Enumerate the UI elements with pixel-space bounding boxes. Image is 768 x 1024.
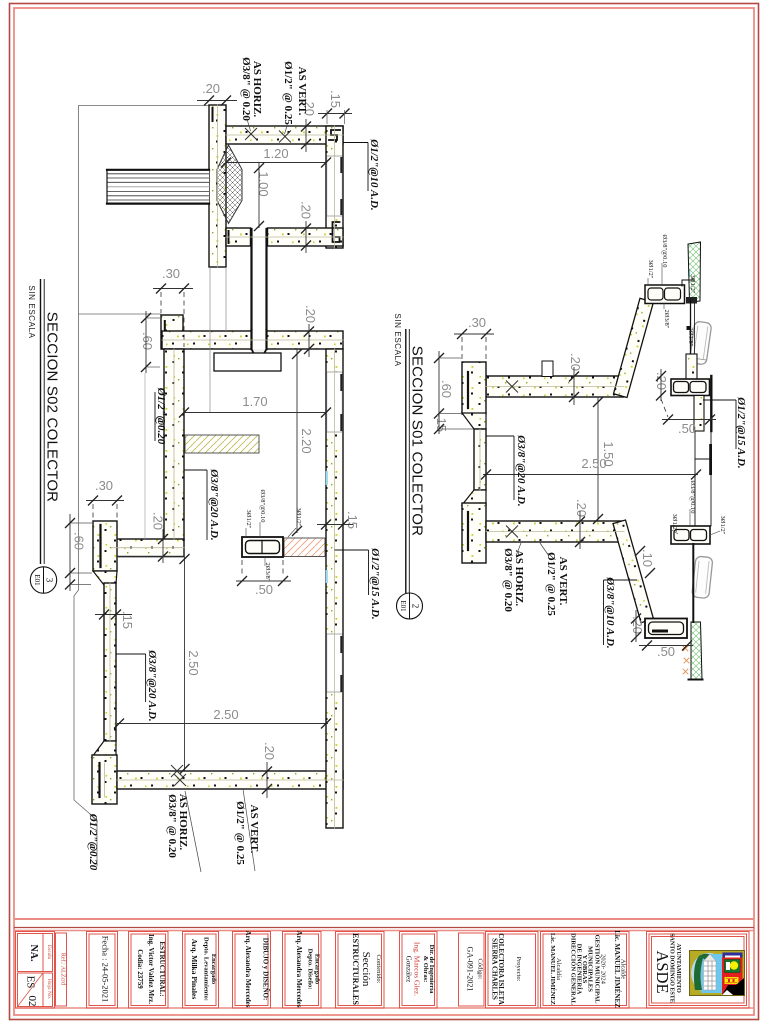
drop shaft [253,229,266,349]
orange hatch block [284,538,325,557]
svg-text:GA-091-2021: GA-091-2021 [466,947,475,992]
svg-text:& Obras:: & Obras: [422,956,429,983]
cyan construction marks [327,269,689,583]
gray center lines [105,105,344,828]
svg-text:.15: .15 [328,90,343,108]
svg-text:Ø1/2" @ 0.25: Ø1/2" @ 0.25 [545,552,557,616]
svg-text:2Ø3/8": 2Ø3/8" [663,310,670,329]
svg-text:.20: .20 [303,305,318,323]
svg-text:.60: .60 [439,380,454,398]
green hatch band bottom [691,622,702,679]
S01 left wall bottom block [462,503,486,563]
wall bits right [687,326,691,330]
S01 title [393,313,426,619]
svg-text:.15: .15 [120,611,135,629]
upper small chamber [645,285,685,304]
svg-text:.50: .50 [678,421,696,436]
dim .50 outfall [639,645,693,647]
svg-text:ESTRUCTURALES: ESTRUCTURALES [351,933,360,1005]
svg-text:Escala: Escala [46,945,52,960]
stub on slab [542,361,553,377]
svg-text:SIN ESCALA: SIN ESCALA [393,313,402,366]
svg-text:Ø1/2"@0.20: Ø1/2"@0.20 [87,813,99,871]
svg-text:AS VERT.: AS VERT. [557,557,569,606]
right wall niche (pipe outlet) [327,156,342,216]
svg-text:.10: .10 [640,549,655,567]
svg-text:AYUNTAMIENTO: AYUNTAMIENTO [675,943,681,993]
lower chamber right [671,526,710,544]
svg-text:AS VERT.: AS VERT. [248,805,260,854]
svg-text:.20: .20 [630,616,645,634]
svg-text:.20: .20 [574,499,589,517]
construction joint hatch (yellow) [185,435,259,453]
left footing [92,755,117,804]
section bubble 3/E01 [30,567,56,593]
svg-text:Ø3/8"@0.10: Ø3/8"@0.10 [661,234,668,267]
svg-text:.30: .30 [468,315,486,330]
mid chamber [671,379,710,396]
svg-text:2.20: 2.20 [299,428,314,453]
S02 right wall [326,349,343,828]
svg-text:.50: .50 [255,582,273,597]
svg-text:Ø1/2"@10 A.D.: Ø1/2"@10 A.D. [368,138,380,210]
excavation outline S02 [74,106,209,867]
svg-text:Ing. Marcos Glez.: Ing. Marcos Glez. [413,942,422,996]
svg-text:1.20: 1.20 [263,146,288,161]
S01 left thin wall [474,429,486,490]
S01 left wall top block [462,362,486,414]
X marks [245,128,257,140]
S02 title [27,279,61,593]
slab end hooks [619,380,623,394]
svg-text:.20: .20 [151,512,166,530]
svg-text:3Ø1/2": 3Ø1/2" [671,514,678,533]
svg-text:Ø3/8"@10 A.D.: Ø3/8"@10 A.D. [604,576,616,648]
title block [16,930,750,1008]
S02 upper chamber right wall [326,126,343,248]
box top slab upstand [161,315,183,349]
pipe bell 2 [692,556,713,599]
rebar hook bottom right [333,222,340,242]
S02 bottom slab [117,771,343,789]
svg-text:.20: .20 [202,81,220,96]
rebar bar left wall top [212,108,214,121]
svg-text:.20: .20 [299,201,314,219]
right wall niche lower [327,634,342,692]
svg-text:E01: E01 [399,600,407,612]
svg-text:ASDE: ASDE [653,950,672,993]
svg-text:Ø1/2" @ 0.25: Ø1/2" @ 0.25 [282,61,294,125]
small rebar chamber [242,537,283,557]
svg-text:Ø3/8"@20 A.D.: Ø3/8"@20 A.D. [208,468,220,540]
S02 box left wall [164,349,184,540]
pipe end diamond (crosshatched) [217,145,242,224]
svg-text:2.50: 2.50 [186,650,201,675]
svg-text:Ø3/8" @ 0.20: Ø3/8" @ 0.20 [502,548,514,612]
svg-text:Ø1/2"@15 A.D.: Ø1/2"@15 A.D. [735,396,747,468]
svg-text:SIN ESCALA: SIN ESCALA [27,285,36,338]
svg-text:Ø1/2"@0.20: Ø1/2"@0.20 [155,387,167,445]
gray center lines S01 [480,387,624,532]
ASDE logo [690,951,745,996]
svg-text:SIERRA CHARLES: SIERRA CHARLES [491,938,499,1000]
S02 upper chamber left wall [209,105,226,267]
svg-text:NA.: NA. [28,945,39,962]
svg-text:ESTRUCTURAL:: ESTRUCTURAL: [158,941,166,996]
svg-text:AS VERT.: AS VERT. [296,67,308,116]
svg-text:1.00: 1.00 [256,171,271,196]
svg-text:Arq. Alexandra Mercedes: Arq. Alexandra Mercedes [244,931,252,1008]
S01 bottom slab [486,521,624,542]
svg-text:2: 2 [411,604,421,609]
svg-text:Ø3/8" @ 0.20: Ø3/8" @ 0.20 [166,794,178,858]
svg-text:SECCION S01 COLECTOR: SECCION S01 COLECTOR [409,346,426,536]
S01 dimensions [434,315,716,659]
svg-text:Ø1/2"@15 A.D.: Ø1/2"@15 A.D. [369,547,381,619]
rebar hook top right [329,130,340,140]
svg-text:Encargado: Encargado [210,954,217,984]
svg-text:.20: .20 [262,742,277,760]
right wall niche upper [327,372,342,432]
svg-text:Ø3/8"@20 A.D.: Ø3/8"@20 A.D. [146,649,158,721]
svg-text:SECCION S02 COLECTOR: SECCION S02 COLECTOR [44,312,61,502]
green hatch band top [688,242,701,302]
dim .50 right [661,399,668,417]
lower thin wall [104,583,116,741]
bench slab [112,539,184,557]
svg-text:Arq. Milka Pinales: Arq. Milka Pinales [190,939,199,1000]
svg-text:2.50: 2.50 [581,456,606,471]
svg-text:2.50: 2.50 [213,707,238,722]
svg-text:2020- 2024: 2020- 2024 [600,954,607,985]
svg-text:3Ø1/2": 3Ø1/2" [245,510,252,529]
svg-text:3Ø1/2": 3Ø1/2" [689,275,696,294]
svg-text:.20: .20 [568,353,583,371]
svg-text:ES: ES [25,976,37,989]
svg-text:Ø3/8"@20 A.D.: Ø3/8"@20 A.D. [515,434,527,506]
svg-text:2Ø3/8": 2Ø3/8" [687,328,694,347]
section bubble 2/E01 [397,593,423,619]
svg-text:MUNICIPALES: MUNICIPALES [587,946,594,992]
svg-text:Contenido:: Contenido: [375,955,382,984]
svg-text:3Ø1/2": 3Ø1/2" [647,260,654,279]
pipe bell 1 [689,321,712,365]
bench curb block [93,521,117,571]
svg-text:3: 3 [45,578,55,583]
wall below mid chamber [694,396,704,432]
S02 leader labels [87,57,381,872]
X marks [506,381,518,393]
svg-text:Proyecto:: Proyecto: [515,957,522,982]
svg-text:González: González [405,956,413,982]
S01 top slab [486,376,624,397]
lower battered wall (diagonal) [613,520,654,623]
S01 leader labels [486,234,747,648]
svg-text:1.70: 1.70 [242,394,267,409]
svg-text:.60: .60 [72,532,87,550]
svg-text:Ø3/8"@0.10: Ø3/8"@0.10 [689,480,696,513]
svg-text:Código:: Código: [477,959,484,980]
svg-text:.30: .30 [95,478,113,493]
svg-text:02: 02 [26,996,38,1007]
svg-text:Ing. Victor Valdez Mrz.: Ing. Victor Valdez Mrz. [147,934,155,1004]
S02 box top slab [162,331,343,349]
svg-text:E01: E01 [33,574,41,586]
svg-text:Depto. Diseño:: Depto. Diseño: [307,949,314,990]
shaft through slab + V tip [252,330,267,350]
svg-text:Hoja No.: Hoja No. [46,979,52,1000]
upper battered wall (diagonal) [614,298,654,397]
inlet pipe [107,169,209,204]
outfall chamber [645,619,687,639]
S02 upper chamber bottom slab [226,228,251,246]
svg-text:Codia: 23759: Codia: 23759 [136,949,144,989]
svg-text:.50: .50 [657,644,675,659]
hanging beam under slab [214,353,281,371]
svg-text:Encargado: Encargado [314,954,321,984]
svg-text:Alcaldía: Alcaldía [555,958,562,980]
svg-text:3Ø1/2": 3Ø1/2" [719,516,726,535]
svg-text:Ø3/8"@0.10: Ø3/8"@0.10 [259,489,266,522]
svg-text:Ø1/2" @ 0.25: Ø1/2" @ 0.25 [234,801,246,865]
svg-text:3Ø1/2": 3Ø1/2" [295,508,302,527]
svg-text:DIBUJO y DISEÑO:: DIBUJO y DISEÑO: [262,938,270,1001]
svg-text:Ø3/8" @ 0.20: Ø3/8" @ 0.20 [240,57,252,121]
S02 upper chamber top slab [226,126,343,144]
svg-text:Arq. Alexandra Mercedes: Arq. Alexandra Mercedes [295,931,303,1008]
S02 dimensions [65,81,360,798]
svg-text:Fecha : 24-05-2021: Fecha : 24-05-2021 [101,936,111,1003]
svg-text:.60: .60 [140,332,155,350]
svg-text:Alcalde: Alcalde [620,959,627,979]
svg-text:Depto. Levantamiento:: Depto. Levantamiento: [203,937,210,1001]
drawing area bottom separator [14,918,754,920]
svg-text:Ref.: ALZcrd: Ref.: ALZcrd [60,953,67,985]
svg-text:Sección: Sección [360,952,372,987]
svg-text:.30: .30 [162,266,180,281]
